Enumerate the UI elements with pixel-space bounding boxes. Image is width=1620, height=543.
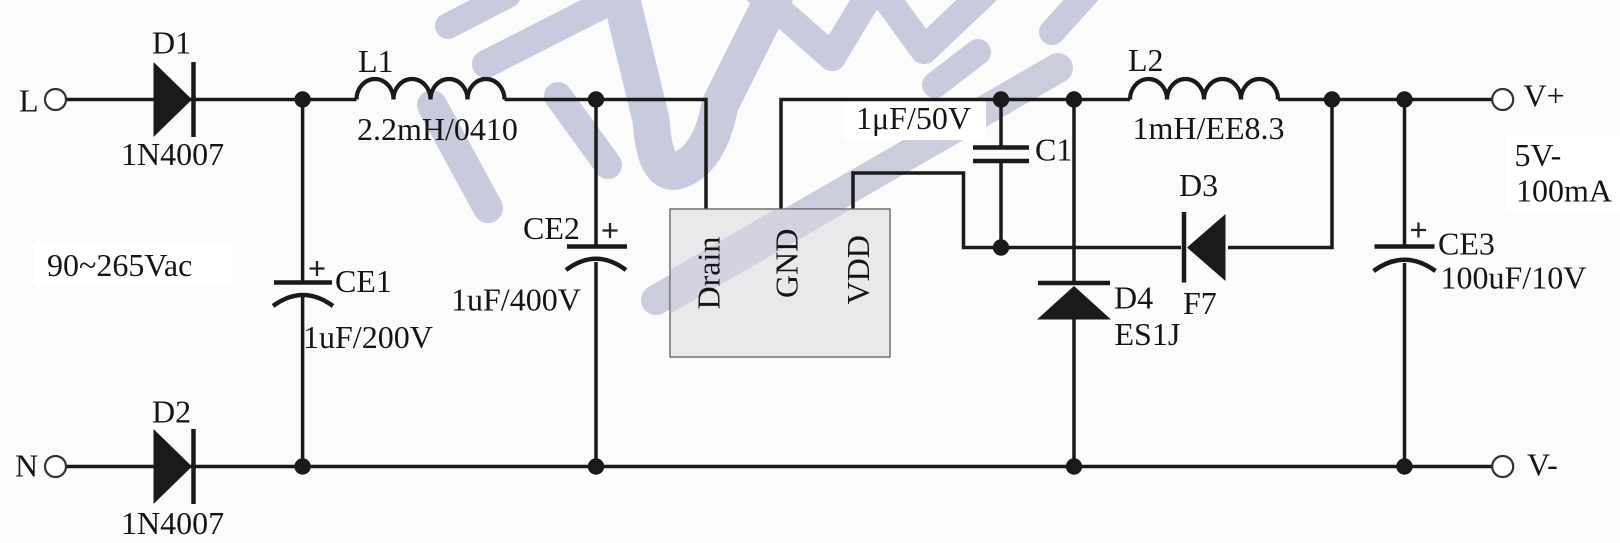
- svg-text:1mH/EE8.3: 1mH/EE8.3: [1133, 110, 1285, 146]
- svg-text:2.2mH/0410: 2.2mH/0410: [357, 111, 518, 147]
- inductor L2: [1130, 79, 1278, 100]
- capacitor C1 top plate: [973, 145, 1029, 150]
- junction node D4 top: [1066, 91, 1082, 107]
- capacitor CE2 bottom curved plate: [566, 259, 626, 270]
- svg-text:1μF/50V: 1μF/50V: [856, 100, 971, 136]
- watermark letter U: [617, 0, 780, 171]
- watermark left letter second leg: [558, 96, 608, 165]
- watermark band visible through IC box: [656, 68, 1058, 300]
- wire bottom rail N terminal to V- terminal: [66, 465, 1492, 469]
- wire C1 top lead: [999, 100, 1003, 146]
- wire node B down through CE1 top lead: [301, 100, 305, 281]
- svg-text:100mA: 100mA: [1516, 173, 1612, 209]
- svg-text:1uF/400V: 1uF/400V: [451, 282, 581, 318]
- wire GND pin riser and top rail to L2: [781, 100, 1130, 210]
- wire D3 anode to top rail riser: [1228, 100, 1332, 248]
- diode D2 triangle: [154, 429, 193, 504]
- watermark left letter leg: [432, 105, 488, 208]
- svg-text:Drain: Drain: [691, 237, 727, 310]
- svg-text:C1: C1: [1035, 132, 1072, 168]
- terminal L circle: [45, 89, 66, 110]
- svg-text:CE3: CE3: [1438, 226, 1495, 262]
- wire D4 top lead from top rail: [1072, 100, 1076, 284]
- inductor L1: [357, 79, 505, 100]
- svg-text:100uF/10V: 100uF/10V: [1441, 260, 1587, 296]
- junction node top rail after D1: [294, 91, 310, 107]
- diode D3 triangle pointing left: [1187, 214, 1226, 281]
- svg-text:ES1J: ES1J: [1115, 316, 1181, 352]
- svg-text:1N4007: 1N4007: [121, 136, 224, 172]
- capacitor C1 bottom plate: [973, 159, 1029, 164]
- white patch behind 5V-100mA: [1506, 135, 1620, 212]
- svg-text:CE2: CE2: [523, 210, 580, 246]
- wire L terminal to D1 and node A to L1: [66, 98, 357, 102]
- svg-text:V-: V-: [1527, 447, 1558, 483]
- svg-text:L2: L2: [1128, 42, 1164, 78]
- wire CE3 top lead: [1403, 100, 1407, 245]
- white patch behind 90~265Vac: [34, 243, 232, 285]
- diode D4 triangle pointing up: [1037, 286, 1111, 320]
- svg-text:90~265Vac: 90~265Vac: [47, 247, 192, 283]
- capacitor CE3 top plate: [1375, 244, 1435, 249]
- junction node bottom rail CE2: [588, 458, 604, 474]
- svg-text:V+: V+: [1524, 78, 1565, 114]
- watermark corner piece top-left: [448, 0, 508, 26]
- svg-text:GND: GND: [769, 229, 805, 298]
- watermark chip right mid: [935, 52, 978, 85]
- svg-text:5V-: 5V-: [1515, 137, 1562, 173]
- junction node bottom rail CE1: [294, 458, 310, 474]
- capacitor CE1 bottom curved plate: [273, 295, 333, 306]
- svg-text:D3: D3: [1179, 167, 1218, 203]
- watermark stroke upper-left bar: [432, 0, 1090, 300]
- capacitor CE3 bottom curved plate: [1374, 260, 1436, 271]
- diode D2 cathode bar: [191, 429, 196, 504]
- svg-text:D2: D2: [152, 394, 191, 430]
- diode D1 triangle: [154, 62, 193, 137]
- svg-text:D4: D4: [1114, 280, 1153, 316]
- white patch behind 1uF/50V: [843, 98, 986, 140]
- capacitor CE1 top plate: [274, 280, 332, 285]
- junction node C1 bottom: [993, 239, 1009, 255]
- wire C1 bottom lead: [999, 163, 1003, 248]
- wire node C down through CE2 top lead: [594, 100, 598, 245]
- plus sign CE1: [310, 261, 325, 276]
- junction node C1 top: [993, 91, 1009, 107]
- svg-text:1uF/200V: 1uF/200V: [303, 319, 433, 355]
- terminal V- circle: [1492, 456, 1513, 477]
- wire D4 bottom lead to bottom rail: [1072, 320, 1076, 467]
- junction node top rail after L1: [588, 91, 604, 107]
- svg-text:CE1: CE1: [335, 263, 392, 299]
- plus sign CE2: [603, 223, 618, 238]
- wire CE3 bottom lead: [1403, 263, 1407, 467]
- wire L2 to V+ terminal: [1278, 98, 1492, 102]
- watermark long diagonal bar: [656, 68, 1058, 300]
- wire L1 right to drain pin riser: [505, 100, 707, 210]
- junction node bottom rail D4: [1066, 458, 1082, 474]
- svg-text:1N4007: 1N4007: [121, 505, 224, 541]
- svg-text:N: N: [15, 448, 38, 484]
- svg-text:D1: D1: [152, 25, 191, 61]
- junction node CE3 top: [1396, 91, 1412, 107]
- junction node bottom rail CE3: [1396, 458, 1412, 474]
- wire CE2 bottom lead: [594, 262, 598, 467]
- junction node L2 output: [1324, 91, 1340, 107]
- wire CE1 bottom lead: [301, 297, 305, 467]
- diode D4 cathode bar: [1038, 281, 1110, 286]
- svg-text:L1: L1: [358, 43, 394, 79]
- plus sign CE3: [1411, 223, 1426, 238]
- svg-text:L: L: [19, 83, 39, 119]
- capacitor CE2 top plate: [567, 244, 627, 249]
- diode D3 cathode bar: [1182, 212, 1187, 283]
- terminal V+ circle: [1492, 89, 1513, 110]
- diode D1 cathode bar: [191, 62, 196, 137]
- watermark letter N vee: [754, 0, 1002, 57]
- watermark corner chip top right: [1052, 0, 1090, 32]
- terminal N circle: [45, 456, 66, 477]
- svg-text:VDD: VDD: [840, 235, 876, 304]
- svg-text:F7: F7: [1183, 285, 1217, 321]
- op-amp U1 controller IC box: [670, 209, 890, 357]
- wire VDD pin riser stepped to C1 bottom and D3 cathode: [853, 173, 1181, 248]
